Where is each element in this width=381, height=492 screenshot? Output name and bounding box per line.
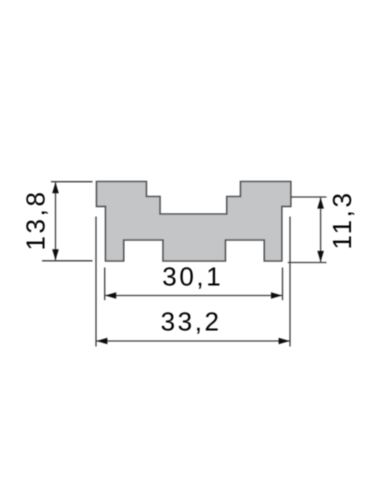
dimension 30,1 : arrow right	[271, 292, 282, 299]
dimension 33,2 : arrow right	[279, 338, 290, 345]
dimension 11,3 : arrow down	[317, 251, 324, 262]
dimension 11,3 : extension line bottom	[288, 262, 327, 264]
dimension 13,8 : arrow down	[52, 249, 59, 260]
dimension 13,8 : extension line top	[51, 181, 93, 183]
svg-text:13,8: 13,8	[21, 189, 51, 250]
svg-text:30,1: 30,1	[162, 262, 223, 292]
svg-text:11,3: 11,3	[327, 190, 357, 249]
dimension 33,2 : dimension line	[96, 340, 289, 342]
dimension 13,8 : dimension line	[55, 182, 57, 260]
dimension 11,3 : extension line top	[291, 196, 327, 198]
dimension 13,8 : arrow up	[52, 182, 59, 193]
dimension 30,1 : dimension line	[105, 295, 282, 297]
dimension 30,1 : extension line left	[104, 268, 106, 301]
dimension 33,2 : extension line right	[289, 217, 291, 347]
dimension 13,8 : extension line bottom	[42, 260, 93, 262]
dimension 30,1 : arrow left	[105, 292, 116, 299]
dimension 11,3 : dimension line	[320, 198, 322, 262]
profile cross-section body	[97, 182, 291, 262]
dimension 30,1 : extension line right	[282, 268, 284, 301]
svg-text:33,2: 33,2	[161, 306, 222, 336]
dimension 33,2 : arrow left	[96, 338, 107, 345]
dimension 11,3 : arrow up	[317, 198, 324, 209]
dimension 33,2 : extension line left	[95, 217, 97, 347]
